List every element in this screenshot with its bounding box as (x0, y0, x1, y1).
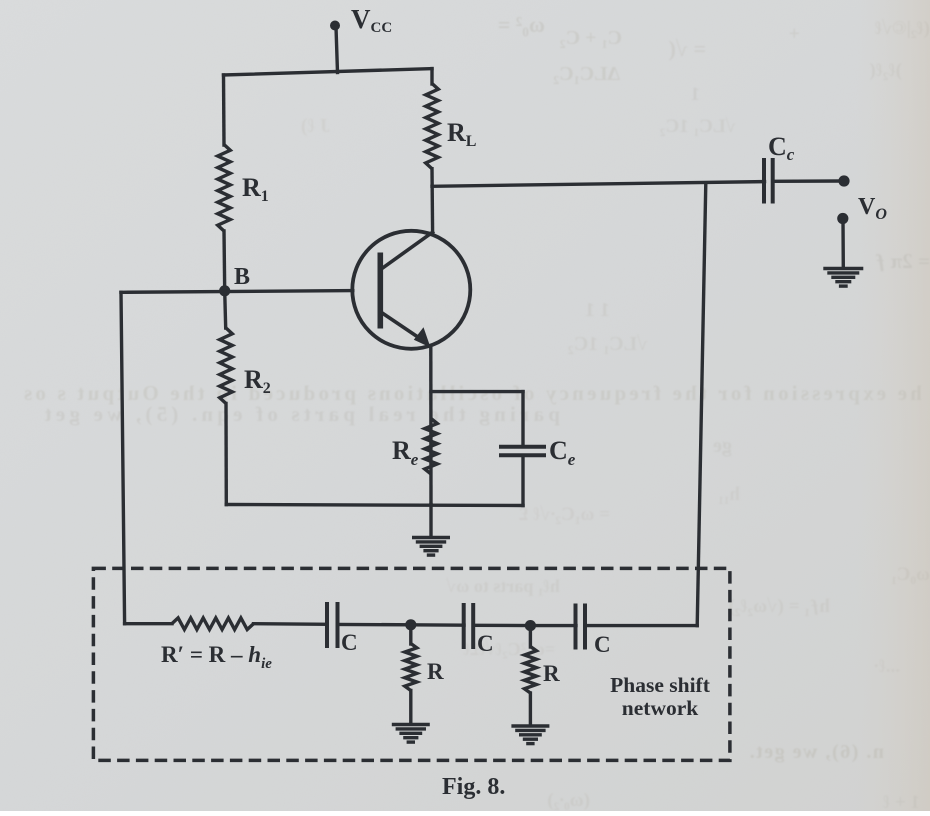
ground (first shunt R) (392, 725, 430, 743)
wire: bottom-left lead to R&#8242; (125, 622, 172, 625)
svg-text:h₁₁: h₁₁ (718, 484, 740, 505)
node B junction dot (219, 285, 230, 296)
svg-text:R: R (543, 661, 560, 686)
resistor Re (425, 419, 438, 475)
svg-text:= √(: = √( (669, 36, 706, 61)
wire: bottom rail R2 to Ce branch (226, 505, 523, 506)
wire: R2 bottom lead (224, 404, 228, 505)
svg-text:C: C (477, 631, 494, 656)
node: output terminal dot (upper) (838, 175, 849, 186)
wire: R1 shunt ground stub (409, 691, 412, 725)
svg-text:1 1: 1 1 (585, 299, 610, 321)
capacitor C (first) (327, 602, 338, 648)
svg-text:ΔLC₁C₂: ΔLC₁C₂ (553, 63, 620, 85)
wire: Cc to output terminal (773, 179, 841, 183)
resistor R' = R - h_ie (172, 618, 254, 630)
svg-text:+: + (789, 23, 800, 45)
wire: Ce branch vertical top (521, 392, 524, 447)
svg-text:ge: ge (713, 435, 732, 457)
ground (output) (823, 269, 863, 287)
svg-text:C: C (341, 630, 358, 655)
svg-text:(ℓ₂|©√ℓ: (ℓ₂|©√ℓ (875, 18, 930, 39)
wire: R2 shunt ground stub (529, 693, 532, 726)
svg-text:)ℓ₂ℓ(: )ℓ₂ℓ( (869, 60, 902, 81)
wire: Vo ground stub (841, 220, 845, 268)
label Phase shift network (610, 673, 711, 720)
transistor Q1 (NPN BJT) (352, 231, 470, 349)
svg-text:√LC₁ 1C₂: √LC₁ 1C₂ (568, 333, 648, 355)
svg-text:= ω₁C₂∙√ℓ £: = ω₁C₂∙√ℓ £ (519, 504, 610, 525)
wire: collector output wire to Cc (432, 182, 765, 187)
wire: top supply rail (224, 69, 433, 75)
resistor R1 (218, 145, 231, 232)
wire: base wire from feedback corner through B to transistor base (121, 291, 353, 293)
wire: R2 top lead (225, 291, 226, 328)
svg-text:B: B (234, 264, 250, 290)
svg-text:1: 1 (691, 84, 701, 105)
dashed box: phase shift network boundary (93, 568, 730, 760)
wire: feedback from node B down left side (121, 292, 125, 623)
svg-text:√LC₁ 1C₂: √LC₁ 1C₂ (660, 116, 736, 137)
wire: feedback drop from output wire into phase-shift network (697, 183, 706, 626)
resistor RL (426, 84, 439, 169)
capacitor Ce (499, 447, 546, 456)
capacitor C (second) (464, 603, 474, 649)
svg-text:= 2π ƒ: = 2π ƒ (875, 249, 930, 273)
svg-text:paring the real parts of eqn.: paring the real parts of eqn. (5), we ge… (41, 402, 560, 426)
node junction dot 1 (405, 619, 416, 630)
svg-text:Phase shift: Phase shift (610, 673, 711, 697)
wire: node2 to C3 (530, 624, 576, 627)
wire: left branch top lead (to R1) (222, 75, 226, 145)
wire: R1 bottom lead to node B (222, 231, 226, 291)
capacitor Cc (764, 158, 773, 204)
ground (second shunt R) (511, 726, 549, 744)
wire: node2 to R (second) (529, 626, 532, 647)
capacitor C (third) (576, 604, 586, 650)
wire: emitter lead down (429, 347, 433, 505)
svg-text:1 + ℓ: 1 + ℓ (883, 792, 920, 811)
wire: emitter ground stub (429, 505, 432, 538)
wire: emitter junction to Ce branch (top) (431, 390, 523, 393)
svg-text:C₁ + C₂: C₁ + C₂ (560, 27, 622, 49)
svg-text:ω₀C₁: ω₀C₁ (891, 564, 930, 585)
node: Vo terminal dot (lower) (837, 213, 848, 224)
svg-text:J ℓ): J ℓ) (301, 115, 330, 137)
node junction dot 2 (525, 620, 536, 631)
resistor R2 (220, 328, 233, 404)
svg-text:hℓ₁ parts to ω√: hℓ₁ parts to ω√ (446, 576, 560, 596)
svg-text:ω₀² =: ω₀² = (498, 12, 545, 37)
resistor R (first shunt) (405, 644, 417, 691)
svg-text:...ℓ∙: ...ℓ∙ (874, 656, 900, 677)
wire: Ce branch vertical bottom (521, 455, 524, 505)
svg-text:(ω₀∙₂): (ω₀∙₂) (547, 790, 590, 811)
wire: Vcc lead (336, 27, 338, 73)
ground (emitter) (412, 538, 450, 556)
svg-text:Fig. 8.: Fig. 8. (442, 774, 505, 800)
svg-text:n. (6), we get.: n. (6), we get. (748, 741, 884, 763)
svg-text:hƒ₁ = (√ω₂ℓ₂): hƒ₁ = (√ω₂ℓ₂) (728, 596, 830, 617)
wire: R&#8242; to C1 (254, 622, 328, 626)
svg-text:R: R (427, 659, 444, 684)
wire: node1 to C2 (411, 623, 464, 627)
svg-text:network: network (622, 696, 698, 720)
power terminal Vcc dot (330, 21, 340, 31)
wire: C1 to node 1 (338, 623, 413, 627)
wire: collector branch top lead (to RL) (430, 69, 433, 84)
wire: C2 to node 2 (473, 624, 531, 628)
resistor R (second shunt) (524, 647, 536, 694)
svg-text:C: C (594, 632, 611, 657)
wire: C3 to right riser (585, 624, 697, 627)
wire: RL bottom lead to collector (430, 169, 434, 233)
wire: node1 to R (first) (409, 625, 412, 644)
